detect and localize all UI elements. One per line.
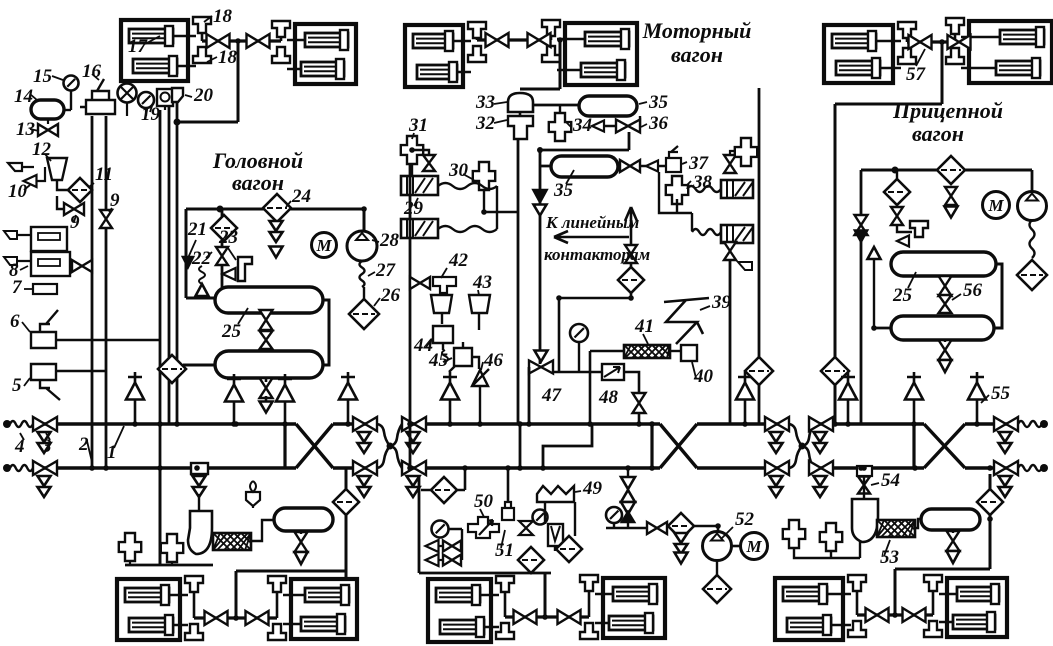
node 895,169	[892, 167, 899, 174]
trailer bottom bogie left unit cylinder	[783, 587, 827, 601]
valve 22	[196, 284, 209, 296]
pipe trailer aux bottom	[794, 548, 860, 558]
pipe feed drop	[235, 571, 238, 618]
wire	[897, 225, 912, 232]
motor bottom bogie release valve	[496, 623, 514, 639]
trailer bottom bogie left unit	[775, 578, 843, 640]
wire	[874, 327, 891, 330]
motor bottom bogie isolating cock	[514, 610, 537, 624]
vent under reservoir	[227, 374, 241, 424]
box 40	[681, 345, 697, 361]
wire	[438, 545, 462, 547]
motor M trailer	[983, 192, 1010, 219]
drain	[945, 207, 958, 218]
leader line	[916, 49, 925, 66]
end cock	[765, 461, 789, 475]
wire	[731, 545, 740, 548]
svg-text:32: 32	[475, 113, 496, 134]
check valve	[621, 477, 635, 489]
leader line	[24, 288, 33, 290]
head bottom bogie left unit cylinder	[129, 618, 173, 632]
motor bottom bogie link pipe	[505, 615, 589, 618]
motor bottom bogie release valve	[496, 576, 514, 592]
trailer top bogie left unit cylinder	[832, 34, 876, 48]
end cock drain	[358, 432, 371, 442]
wire	[442, 313, 479, 330]
pipe crossover 1	[296, 424, 333, 468]
node left end feed pipe	[3, 420, 11, 428]
motor M 52	[741, 533, 768, 560]
driver brake valve 16	[80, 79, 115, 114]
filter trailer feed	[821, 357, 849, 385]
motor bottom bogie left unit cylinder	[436, 588, 480, 602]
motor bottom bogie release valve	[580, 623, 598, 639]
pipe fitting	[401, 136, 423, 164]
pipe riser D	[168, 107, 171, 424]
svg-text:вагон: вагон	[912, 121, 964, 146]
svg-text:33: 33	[475, 92, 495, 113]
end cock drain	[407, 443, 420, 453]
svg-text:46: 46	[483, 350, 504, 371]
exhaust	[426, 540, 439, 552]
leader line	[463, 174, 474, 180]
wire	[171, 562, 173, 565]
leader line	[185, 95, 192, 97]
valve 36	[616, 120, 640, 133]
leader line	[114, 426, 124, 448]
svg-text:55: 55	[991, 383, 1011, 404]
trailer bottom bogie left unit pipe	[827, 594, 851, 625]
head top bogie left unit	[121, 20, 188, 81]
wire	[716, 560, 718, 576]
end cock	[402, 461, 426, 475]
leader line	[145, 36, 160, 44]
end cock drain	[38, 476, 51, 486]
svg-text:37: 37	[688, 153, 710, 174]
wire	[145, 108, 147, 116]
wire	[896, 170, 898, 181]
pipe	[185, 209, 188, 298]
resistor 41	[624, 345, 670, 358]
valve 47 top	[535, 351, 548, 362]
pipe 6 to riser	[56, 339, 160, 341]
trailer top bogie link pipe	[907, 40, 955, 43]
node right end feed	[1040, 420, 1048, 428]
pipe fitting	[549, 113, 571, 141]
motor bottom bogie release valve	[580, 575, 598, 591]
leader line	[24, 378, 30, 386]
check valve	[295, 552, 308, 564]
filter trailer bottom	[977, 489, 1003, 515]
motor top bogie right unit	[565, 23, 637, 85]
pipe	[895, 568, 990, 571]
relay 49	[537, 486, 574, 502]
wire	[618, 165, 666, 168]
svg-text:11: 11	[95, 164, 113, 185]
drain 24	[270, 221, 283, 231]
trailer top bogie right unit cylinder	[996, 61, 1040, 75]
wire	[412, 150, 429, 176]
valve 31 drain	[423, 155, 435, 171]
cock 13	[38, 124, 58, 136]
wire	[863, 476, 865, 499]
pipe connector 3	[912, 424, 915, 468]
pipe 2 brake main	[333, 466, 1018, 469]
hose to EPV	[692, 229, 721, 235]
pipe to compressor	[363, 209, 366, 231]
check valve	[621, 490, 635, 502]
leader line	[45, 154, 51, 161]
svg-text:18: 18	[218, 47, 238, 68]
motor top bogie release valve	[468, 46, 486, 62]
gauge stem	[70, 90, 72, 110]
drain 48	[633, 393, 646, 413]
pipe connector 2	[650, 424, 653, 468]
compressor 52	[703, 532, 732, 561]
tee 54	[857, 466, 872, 476]
valve trailer riser	[855, 215, 868, 235]
suction filter 52	[703, 575, 731, 603]
wire	[603, 116, 640, 126]
filter 52	[668, 513, 694, 539]
node left end brake pipe	[3, 464, 11, 472]
filter head bottom	[333, 489, 359, 515]
cock before filter	[647, 522, 667, 534]
leader line	[722, 527, 733, 538]
trailer top bogie right unit cylinder	[1000, 30, 1044, 44]
pipe 41	[590, 351, 624, 424]
relay 48	[602, 364, 624, 380]
drain between reservoirs	[260, 331, 273, 349]
head bottom bogie link pipe	[194, 616, 277, 619]
leader line	[682, 162, 687, 164]
vent valve	[736, 383, 754, 400]
svg-text:28: 28	[379, 230, 400, 251]
head bottom bogie left unit	[117, 579, 180, 640]
pipe bogie drop trailer	[941, 42, 944, 104]
wire	[952, 530, 954, 533]
suction filter trailer	[1017, 260, 1047, 290]
end cock drain	[358, 443, 371, 453]
trailer bottom bogie release valve	[848, 621, 866, 637]
wire	[126, 102, 128, 116]
end cock drain	[358, 476, 371, 486]
drain under tee	[193, 476, 206, 486]
pipe crossover 2	[660, 424, 697, 468]
valve	[939, 340, 952, 360]
leader line	[686, 181, 691, 186]
pipe 38	[659, 172, 692, 231]
gauge stem	[578, 341, 580, 372]
vent valve	[970, 372, 984, 424]
pipe feed drop	[894, 569, 897, 615]
svg-text:21: 21	[187, 219, 207, 240]
valve	[260, 378, 273, 398]
check valve	[939, 360, 952, 372]
drain under tee	[193, 487, 206, 497]
leader line	[30, 94, 37, 100]
pipe 30	[484, 190, 518, 212]
end cock	[402, 417, 426, 431]
check valve	[868, 247, 881, 259]
aux compressor trailer motor	[877, 520, 915, 537]
end cock drain	[358, 487, 371, 497]
flags 8	[4, 231, 17, 265]
vent valve	[738, 372, 752, 424]
end cock	[33, 461, 57, 475]
svg-text:26: 26	[380, 285, 401, 306]
electric motor	[312, 233, 337, 258]
wire	[554, 546, 556, 551]
svg-text:29: 29	[403, 198, 424, 219]
pipe reservoir to riser	[183, 364, 215, 367]
valve under filter 2	[945, 187, 957, 205]
svg-text:52: 52	[735, 509, 755, 530]
vent valve	[841, 372, 855, 424]
head top bogie left unit pipe	[173, 36, 196, 66]
pipe 1 feed main	[33, 422, 296, 425]
aux compressor trailer 53	[852, 499, 878, 542]
motor bottom bogie right unit cylinder	[613, 587, 657, 601]
head bottom bogie release valve	[185, 624, 203, 640]
pipe to 47	[559, 298, 631, 372]
wire	[472, 357, 479, 369]
trailer top bogie left unit cylinder	[836, 61, 880, 75]
exhaust	[426, 554, 439, 566]
device 10 cluster	[8, 163, 34, 171]
hose 29a	[438, 183, 497, 189]
arrow left	[554, 231, 629, 243]
trailer top bogie left unit pipe	[876, 41, 901, 68]
filter motor feed	[745, 357, 773, 385]
valve between trailer reservoirs	[939, 276, 952, 296]
fitting below EPV	[738, 262, 752, 270]
end cock drain	[38, 432, 51, 442]
trailer bottom bogie link pipe	[857, 613, 933, 616]
motor top bogie release valve	[542, 46, 560, 62]
end cock	[809, 417, 833, 431]
svg-text:контакторам: контакторам	[544, 245, 651, 264]
head top bogie left unit cylinder	[133, 59, 177, 73]
crane handle circle	[118, 84, 137, 103]
bell 43	[469, 295, 490, 313]
vent valve	[339, 383, 357, 400]
aux reservoir trailer	[921, 509, 980, 530]
pipe fitting	[161, 534, 183, 562]
wire	[544, 502, 546, 524]
head top bogie link pipe	[202, 39, 281, 42]
check 21	[183, 257, 193, 267]
motor bottom bogie isolating cock	[558, 610, 581, 624]
fitting 42	[433, 277, 456, 293]
cross in circle	[120, 86, 134, 100]
reservoir 25 trailer	[891, 316, 994, 340]
leader line	[639, 102, 647, 104]
pipe head supply	[186, 208, 364, 211]
valve 47	[529, 361, 553, 374]
end cock drain	[38, 443, 51, 453]
wire	[284, 376, 287, 378]
pipe riser	[345, 467, 348, 580]
head bottom bogie release valve	[268, 624, 286, 640]
trailer bottom bogie right unit cylinder	[953, 615, 995, 629]
svg-text:51: 51	[495, 540, 514, 561]
end cock drain	[38, 487, 51, 497]
svg-text:18: 18	[213, 6, 233, 27]
vent under reservoir 2	[278, 374, 292, 424]
leader line	[700, 306, 710, 310]
wire	[519, 112, 522, 116]
fitting 37	[666, 146, 681, 172]
pipe aux head riser	[159, 468, 162, 565]
pipe fitting	[820, 523, 842, 551]
cock	[443, 555, 461, 566]
head top bogie right unit pipe	[287, 40, 305, 69]
leader line	[22, 322, 30, 332]
wire	[164, 106, 166, 110]
wire	[17, 235, 31, 261]
head bottom bogie isolating cock	[205, 611, 228, 625]
valve 44	[433, 326, 453, 350]
head bottom bogie release valve	[268, 576, 286, 592]
wire	[363, 287, 365, 299]
svg-text:36: 36	[648, 113, 669, 134]
leader line	[188, 240, 196, 258]
pipe to brake valve	[177, 121, 238, 124]
leader line	[494, 102, 507, 104]
drain aux trailer	[947, 531, 960, 551]
pipe reservoir connector	[323, 300, 329, 365]
filter riser D	[158, 355, 186, 383]
leader line	[238, 308, 248, 324]
pipe riser	[989, 474, 992, 569]
end cock drain	[999, 432, 1012, 442]
motor bottom bogie right unit cylinder	[609, 616, 653, 630]
leader line	[426, 338, 433, 347]
gauge near 52 line	[606, 507, 622, 523]
end cock drain	[407, 476, 420, 486]
trailer bottom bogie left unit cylinder	[787, 618, 831, 632]
svg-text:53: 53	[880, 547, 899, 568]
pipe	[873, 259, 875, 327]
motor top bogie link pipe	[477, 38, 551, 41]
flexible hose right brake	[1018, 465, 1042, 471]
leader line	[372, 240, 379, 242]
leader line	[228, 248, 236, 260]
regulator 45	[449, 342, 472, 372]
trailer top bogie isolating cock	[948, 35, 971, 49]
leader line	[494, 120, 507, 123]
wire	[638, 413, 641, 424]
trailer bottom bogie pipe	[857, 591, 933, 615]
end cock drain	[770, 476, 783, 486]
leader line	[109, 208, 112, 212]
trailer top bogie pipe	[907, 34, 955, 42]
coupling hoses	[789, 424, 814, 468]
motor top bogie release valve	[542, 20, 560, 36]
vent valve	[126, 383, 144, 400]
gauge 2 block	[533, 510, 548, 525]
leader line	[368, 272, 375, 276]
motor top bogie isolating cock	[486, 33, 509, 47]
aux compressor head motor	[213, 533, 251, 550]
end cock drain	[407, 487, 420, 497]
vent valve	[907, 372, 921, 424]
pipe riser C	[159, 110, 162, 565]
pipe bogie drop motor	[559, 40, 562, 89]
trailer top bogie isolating cock	[909, 35, 932, 49]
leader line	[501, 530, 505, 548]
wire	[265, 378, 268, 382]
exhaust 37	[646, 161, 658, 172]
leader line	[52, 76, 63, 80]
leader line	[89, 183, 94, 187]
motor top bogie left unit	[405, 25, 463, 87]
leader line	[87, 441, 92, 462]
motor bottom bogie right unit	[603, 578, 665, 638]
svg-text:М: М	[987, 196, 1004, 215]
check	[622, 512, 634, 522]
trailer bottom bogie release valve	[848, 575, 866, 591]
end cock drain	[814, 432, 827, 442]
svg-text:47: 47	[541, 385, 563, 406]
wire	[47, 119, 49, 124]
head bottom bogie left unit cylinder	[125, 588, 169, 602]
pipe	[533, 104, 579, 107]
hose 29b	[438, 226, 497, 232]
pipe to filter	[421, 467, 465, 490]
exhaust 23	[223, 268, 236, 280]
release valve trailer	[910, 221, 928, 237]
cock 37	[620, 160, 640, 172]
svg-text:42: 42	[448, 250, 469, 271]
wire	[574, 502, 576, 536]
leader line	[46, 433, 50, 440]
pipe	[236, 570, 346, 573]
trailer top bogie release valve	[946, 18, 964, 34]
check valve	[621, 502, 635, 514]
svg-text:10: 10	[8, 181, 28, 202]
drain 24	[270, 232, 283, 242]
leader line	[871, 483, 879, 485]
pipe block loop	[419, 476, 551, 573]
cock 8	[72, 260, 92, 272]
pipe res 35 loop	[540, 132, 629, 364]
pipe 2 brake main	[33, 466, 296, 469]
head bottom bogie right unit	[291, 579, 357, 639]
leader line	[24, 185, 30, 190]
svg-text:57: 57	[906, 64, 927, 85]
end cock drain	[999, 487, 1012, 497]
svg-text:54: 54	[881, 470, 900, 491]
node hose coupling	[387, 443, 394, 450]
flexible hose right feed	[1018, 421, 1042, 427]
spring 44	[442, 350, 448, 362]
pipe riser 32 down	[517, 139, 520, 424]
end cock drain	[814, 487, 827, 497]
vent valve	[128, 372, 142, 424]
pipe 47-48	[553, 371, 602, 374]
drain under filter 52	[675, 544, 688, 554]
head top bogie left unit cylinder	[129, 29, 173, 43]
motor bottom bogie right unit pipe	[595, 594, 613, 623]
motor top bogie left unit cylinder	[417, 65, 457, 79]
trailer top bogie left unit	[824, 25, 893, 83]
svg-text:вагон: вагон	[671, 42, 723, 67]
wire	[859, 542, 861, 558]
filter on arrow line	[618, 267, 644, 293]
bracket 32	[508, 116, 533, 139]
